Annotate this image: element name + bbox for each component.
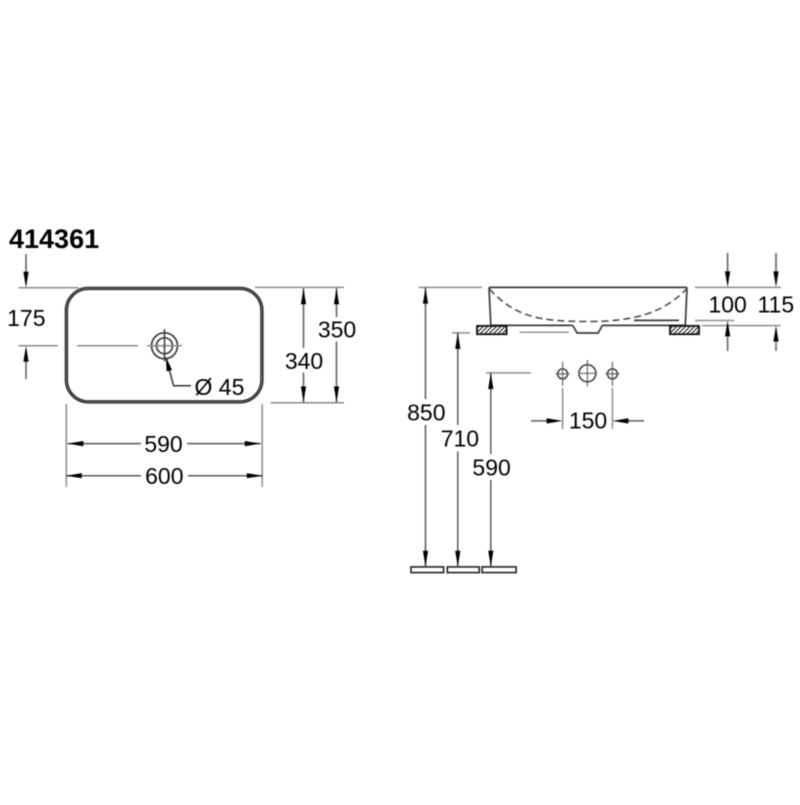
svg-text:100: 100 bbox=[708, 292, 746, 318]
svg-text:115: 115 bbox=[757, 292, 794, 318]
svg-text:150: 150 bbox=[569, 408, 607, 434]
svg-text:175: 175 bbox=[7, 305, 45, 331]
svg-text:850: 850 bbox=[407, 399, 445, 425]
svg-text:350: 350 bbox=[318, 317, 356, 343]
svg-text:Ø 45: Ø 45 bbox=[195, 374, 245, 400]
svg-text:590: 590 bbox=[144, 431, 182, 457]
svg-text:600: 600 bbox=[145, 463, 183, 489]
svg-text:414361: 414361 bbox=[9, 224, 99, 254]
svg-text:340: 340 bbox=[285, 348, 323, 374]
svg-text:710: 710 bbox=[441, 426, 479, 452]
svg-text:590: 590 bbox=[472, 454, 510, 480]
